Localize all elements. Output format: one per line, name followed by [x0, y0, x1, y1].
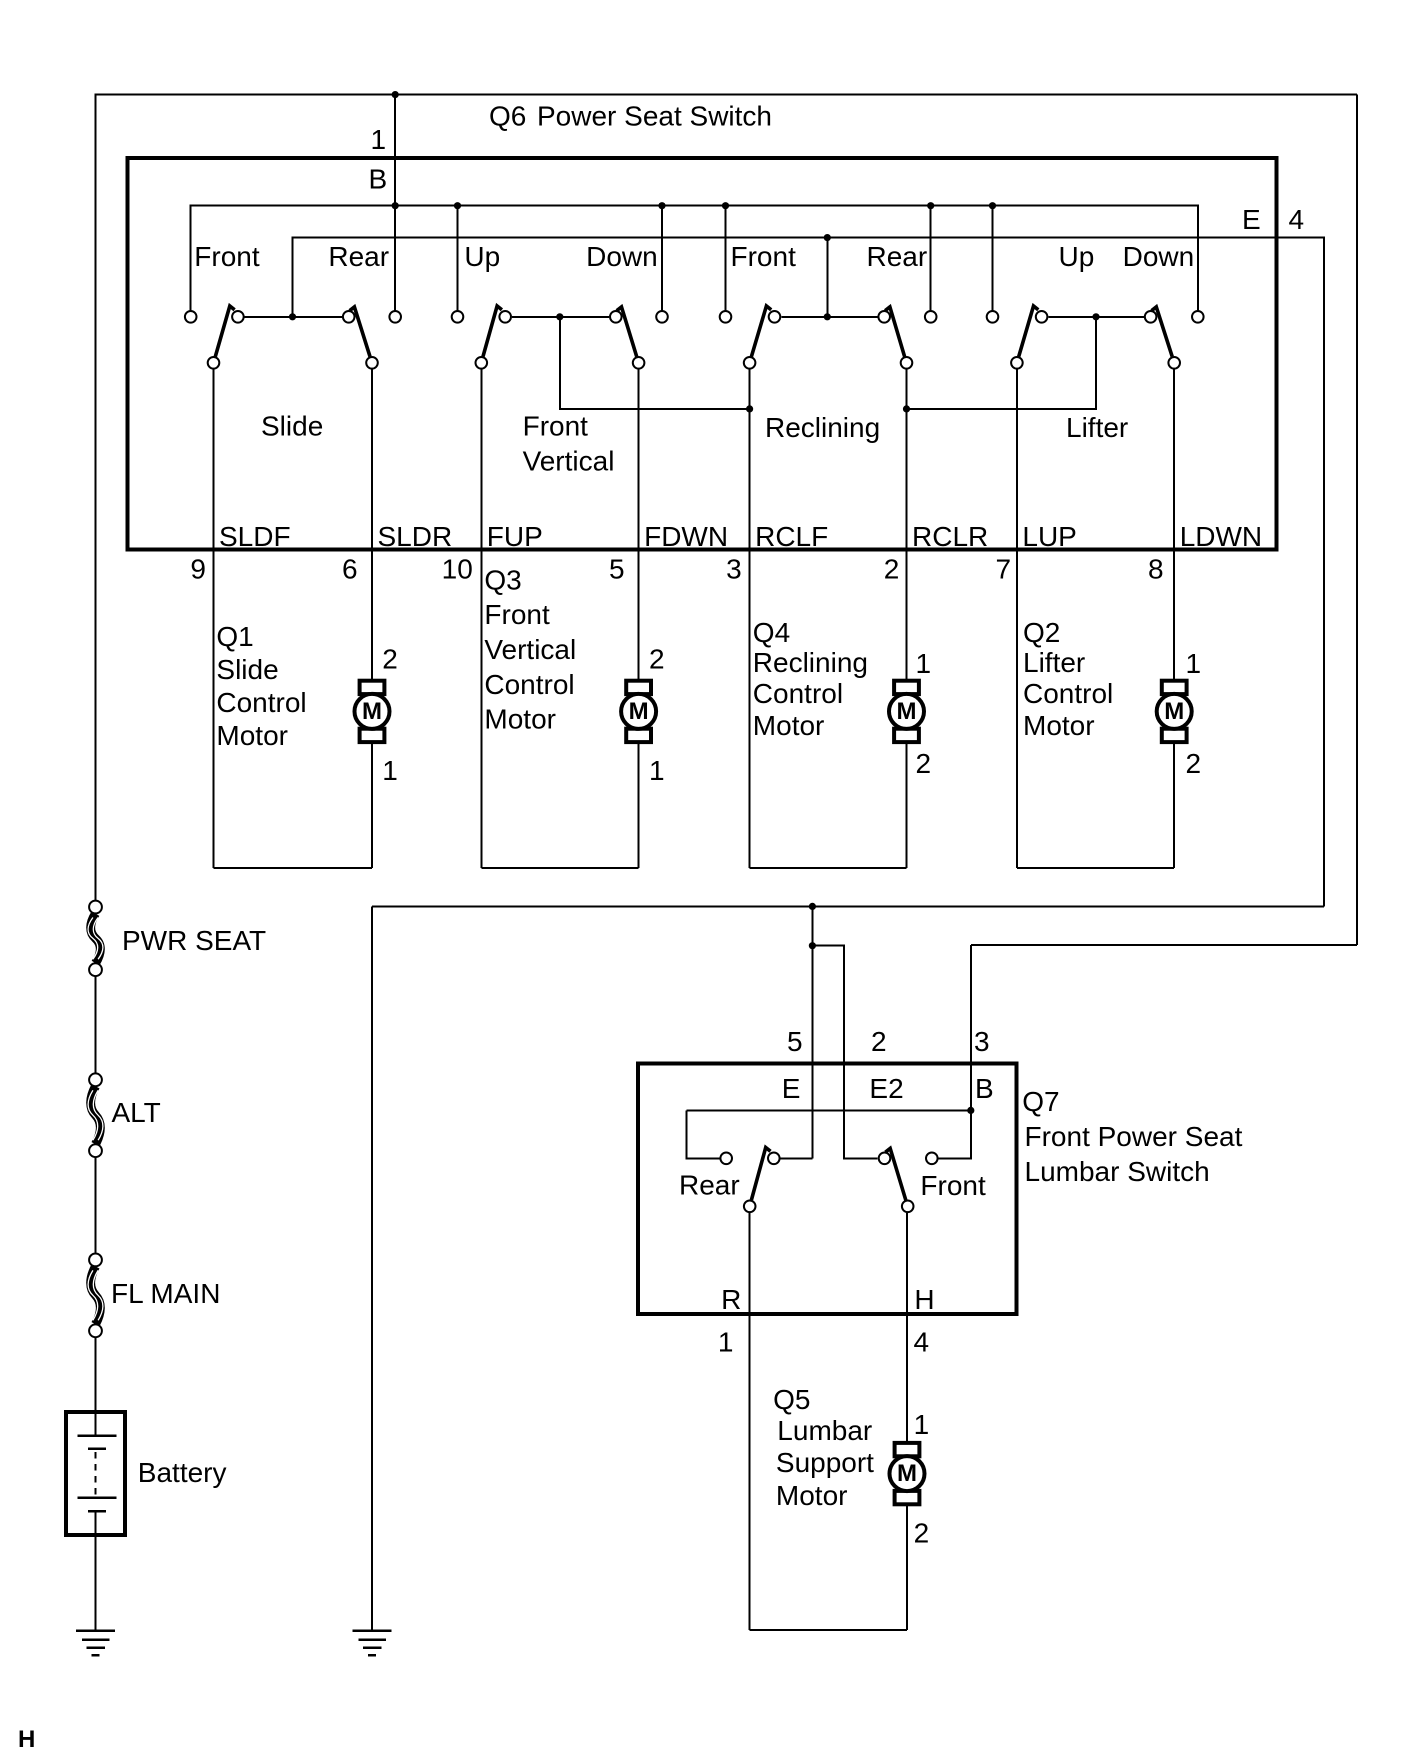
svg-text:5: 5: [787, 1026, 803, 1057]
label Q4 Reclining Control Motor: [753, 617, 868, 741]
label H (page index): [18, 1726, 35, 1753]
motor Q2 lifter control motor symbol: [1157, 681, 1192, 742]
label Front Power Seat: [1025, 1121, 1243, 1152]
svg-text:R: R: [721, 1284, 741, 1315]
svg-text:Up: Up: [1059, 241, 1095, 272]
terminal front vertical pivot R: [633, 357, 645, 369]
switch arm (lifter rear/down side): [1152, 307, 1173, 357]
svg-text:H: H: [914, 1284, 934, 1315]
svg-text:Front: Front: [731, 241, 797, 272]
label Down (front vertical): [586, 241, 658, 272]
svg-text:M: M: [362, 698, 382, 725]
wire lumbar B to Front terminal: [939, 1110, 971, 1158]
terminal front vertical pivot L: [476, 357, 488, 369]
svg-text:2: 2: [884, 554, 900, 585]
junction bus B at up4: [989, 202, 996, 209]
wire FDWN pin 5 drop to motor: [638, 370, 640, 682]
label Q5 Lumbar Support Motor: [773, 1384, 874, 1511]
wire Q4 motor to loop bottom: [906, 738, 908, 868]
svg-text:3: 3: [726, 554, 742, 585]
terminal slide pivot R: [366, 357, 378, 369]
wire B drop to Q6 pin 1: [394, 95, 396, 311]
motor Q5 lumbar support motor symbol: [890, 1443, 925, 1504]
wire Q2 motor to loop bottom: [1173, 738, 1175, 868]
terminal lifter pivot R: [1168, 357, 1180, 369]
pin 1 label (Q3 motor): [649, 755, 665, 786]
label Down (lifter): [1123, 241, 1195, 272]
wire LUP pin 7 drop: [1016, 370, 1018, 868]
pin label LUP: [1022, 521, 1076, 552]
switch arm (reclining front/up side): [751, 306, 771, 357]
pin 1 label (Q1 motor): [382, 755, 398, 786]
pin 1 label (Q2 motor): [1186, 648, 1202, 679]
terminal reclining feed R: [925, 311, 937, 323]
svg-text:E: E: [782, 1073, 801, 1104]
pin E label: [1242, 204, 1261, 235]
svg-text:Power Seat Switch: Power Seat Switch: [537, 101, 772, 132]
svg-text:7: 7: [996, 554, 1012, 585]
pin label LDWN: [1180, 521, 1262, 552]
junction bus E at reclining: [824, 234, 831, 241]
svg-text:Front Power Seat: Front Power Seat: [1025, 1121, 1243, 1152]
svg-text:Reclining: Reclining: [753, 647, 868, 678]
label Front (reclining): [731, 241, 797, 272]
battery plate short top: [88, 1448, 106, 1451]
junction bus B at up2: [454, 202, 461, 209]
pin B label: [369, 164, 388, 195]
label Q1 Slide Control Motor: [216, 621, 306, 751]
junction bus B at front3: [722, 202, 729, 209]
wire bus E (exits Q6 right side, down to E net): [293, 238, 1325, 907]
pin 2 label (Q3 motor): [649, 644, 665, 675]
wire Q4 motor loop bottom: [750, 867, 907, 869]
wire top horizontal (battery B net): [96, 94, 1358, 96]
wire RCLR pin 2 drop to motor: [906, 370, 908, 682]
wire left rail segment (ALT to FL MAIN): [95, 1158, 97, 1253]
wire contact bar (lifter): [1048, 316, 1143, 318]
label Lumbar Switch: [1025, 1156, 1210, 1187]
label Rear (lumbar): [679, 1170, 740, 1201]
junction link at RCLF wire: [746, 405, 753, 412]
svg-text:Vertical: Vertical: [484, 634, 576, 665]
svg-text:8: 8: [1148, 554, 1164, 585]
junction front vertical common node: [556, 313, 563, 320]
svg-text:Up: Up: [464, 241, 500, 272]
pin label FUP: [487, 521, 543, 552]
junction bus B at rear3: [927, 202, 934, 209]
svg-text:FL MAIN: FL MAIN: [111, 1278, 220, 1309]
svg-text:PWR SEAT: PWR SEAT: [122, 925, 266, 956]
svg-text:Slide: Slide: [261, 411, 323, 442]
label Lifter: [1066, 412, 1128, 443]
junction E2 branch: [809, 942, 816, 949]
wire lumbar B bar: [687, 1109, 971, 1111]
svg-text:Down: Down: [586, 241, 658, 272]
terminal lumbar pivot R: [744, 1201, 756, 1213]
wire lifter common to RCLR link: [907, 317, 1097, 409]
terminal slide pivot L: [208, 357, 220, 369]
svg-text:H: H: [18, 1726, 35, 1753]
terminal slide contact L: [232, 311, 244, 323]
switch arm (slide front/up side): [215, 306, 234, 357]
wire E2 branch to lumbar switch pin 2: [812, 946, 877, 1159]
wire Q1 motor to loop bottom: [371, 738, 373, 868]
terminal front vertical feed L: [452, 311, 464, 323]
wire far right vertical (B net): [1356, 95, 1358, 945]
svg-text:LDWN: LDWN: [1180, 521, 1262, 552]
terminal lifter contact L: [1036, 311, 1048, 323]
svg-text:Q5: Q5: [773, 1384, 810, 1415]
wire Q3 motor loop bottom: [481, 867, 638, 869]
terminal lifter contact R: [1145, 311, 1157, 323]
pin 4 label: [1289, 204, 1305, 235]
svg-text:Reclining: Reclining: [765, 412, 880, 443]
wire E horizontal (Q6 E to ground rail): [372, 905, 1324, 907]
junction bus B at B: [392, 202, 399, 209]
svg-text:Lumbar Switch: Lumbar Switch: [1025, 1156, 1210, 1187]
wire B horizontal to lumbar switch: [971, 944, 1357, 946]
wire E drop to reclining common: [826, 238, 828, 317]
svg-text:Down: Down: [1123, 241, 1195, 272]
terminal lifter feed L: [987, 311, 999, 323]
pin label RCLF: [755, 521, 828, 552]
junction bus B at down2: [658, 202, 665, 209]
pin 2 label (Q5 motor): [914, 1517, 930, 1548]
svg-text:Q2: Q2: [1023, 617, 1060, 648]
pin number 5 (FDWN): [609, 554, 625, 585]
pin 2 label (Q4 motor): [916, 748, 932, 779]
terminal reclining pivot L: [744, 357, 756, 369]
pin label SLDF: [219, 521, 291, 552]
svg-text:LUP: LUP: [1022, 521, 1076, 552]
pin 1 label (Q4 motor): [916, 648, 932, 679]
pin number 8 (LDWN): [1148, 554, 1164, 585]
terminal lumbar E2 contact: [879, 1153, 891, 1165]
label Up (front vertical): [464, 241, 500, 272]
svg-text:2: 2: [916, 748, 932, 779]
svg-text:SLDF: SLDF: [219, 521, 291, 552]
label ALT: [112, 1097, 161, 1128]
label Reclining: [765, 412, 880, 443]
pin E2 label (lumbar): [869, 1073, 903, 1104]
label Q7: [1022, 1086, 1059, 1117]
svg-text:Lifter: Lifter: [1066, 412, 1128, 443]
wire contact bar (reclining): [781, 316, 877, 318]
wire left rail segment (battery to PWR SEAT fuse): [95, 94, 97, 900]
label Battery: [138, 1457, 227, 1488]
terminal lumbar Front: [926, 1153, 938, 1165]
svg-text:Control: Control: [1023, 678, 1113, 709]
terminal lumbar E contact: [768, 1153, 780, 1165]
svg-text:RCLR: RCLR: [912, 521, 988, 552]
fuse ALT: [88, 1073, 103, 1157]
label Power Seat Switch: [537, 101, 772, 132]
battery plate long top: [77, 1435, 116, 1438]
terminal lifter feed R: [1192, 311, 1204, 323]
pin number 7 (LUP): [996, 554, 1012, 585]
svg-text:1: 1: [382, 755, 398, 786]
wire battery to ground: [95, 1511, 97, 1631]
svg-text:2: 2: [871, 1026, 887, 1057]
junction link at RCLR wire: [903, 405, 910, 412]
svg-text:1: 1: [1186, 648, 1202, 679]
svg-text:M: M: [897, 698, 917, 725]
svg-text:Motor: Motor: [1023, 710, 1095, 741]
wire feed drop to Up (front vertical) terminal: [457, 206, 459, 311]
wire Q5 motor to loop bottom: [906, 1502, 908, 1630]
wire R pin 1 drop: [749, 1213, 751, 1630]
label Slide: [261, 411, 323, 442]
junction slide common node: [289, 313, 296, 320]
svg-text:Motor: Motor: [216, 720, 288, 751]
wire Q3 motor to loop bottom: [638, 738, 640, 868]
terminal reclining contact L: [769, 311, 781, 323]
svg-text:SLDR: SLDR: [378, 521, 453, 552]
wire feed drop to Up (lifter) terminal: [992, 206, 994, 311]
wire left rail segment (FL MAIN to battery): [95, 1338, 97, 1436]
svg-text:2: 2: [914, 1517, 930, 1548]
switch arm (lumbar rear): [751, 1148, 770, 1201]
svg-text:M: M: [1164, 698, 1184, 725]
junction top B node: [392, 91, 399, 98]
pin label RCLR: [912, 521, 988, 552]
wire E to lumbar Rear-side contact: [781, 1157, 813, 1159]
wire Q1 motor loop bottom: [214, 867, 373, 869]
svg-text:ALT: ALT: [112, 1097, 161, 1128]
terminal front vertical feed R: [656, 311, 668, 323]
junction lifter common node: [1092, 313, 1099, 320]
junction B inside lumbar switch: [967, 1107, 974, 1114]
wire bus B inside Q6: [191, 206, 1198, 311]
svg-text:Lifter: Lifter: [1023, 647, 1085, 678]
pin number 3 (RCLF): [726, 554, 742, 585]
wire FUP pin 10 drop: [480, 370, 482, 868]
terminal reclining contact R: [878, 311, 890, 323]
terminal slide contact R: [343, 311, 355, 323]
svg-text:2: 2: [649, 644, 665, 675]
pin number 2 (RCLR): [884, 554, 900, 585]
svg-text:Front: Front: [484, 599, 550, 630]
motor Q1 slide control motor symbol: [355, 681, 390, 742]
svg-text:2: 2: [382, 644, 398, 675]
terminal slide feed R: [389, 311, 401, 323]
svg-text:Front: Front: [523, 411, 589, 442]
battery plate long bottom: [77, 1496, 116, 1499]
wire SLDF pin 9 drop: [213, 370, 215, 868]
switch box Q7 Front Power Seat Lumbar Switch: [638, 1063, 1016, 1314]
svg-text:Slide: Slide: [216, 654, 278, 685]
wire feed drop to Down (front vertical) terminal: [661, 206, 663, 311]
switch box Q6 Power Seat Switch: [128, 158, 1277, 550]
terminal lifter pivot L: [1011, 357, 1023, 369]
svg-text:Q3: Q3: [484, 565, 521, 596]
label Front Vertical: [523, 411, 615, 477]
wire LDWN pin 8 drop to motor: [1173, 370, 1175, 682]
svg-text:Q6: Q6: [489, 101, 526, 132]
svg-text:E2: E2: [869, 1073, 903, 1104]
wire feed drop to Front (reclining) terminal: [725, 206, 727, 311]
pin B label (lumbar): [975, 1073, 994, 1104]
svg-text:Vertical: Vertical: [523, 445, 615, 476]
svg-text:Rear: Rear: [867, 241, 928, 272]
wire feed drop to Rear (reclining) terminal: [930, 206, 932, 311]
svg-text:B: B: [975, 1073, 994, 1104]
svg-text:Q7: Q7: [1022, 1086, 1059, 1117]
ground (battery): [76, 1631, 115, 1655]
wire ground rail (E net): [371, 906, 373, 1630]
svg-text:Control: Control: [484, 669, 574, 700]
svg-text:Battery: Battery: [138, 1457, 227, 1488]
pin number 9 (SLDF): [190, 554, 206, 585]
switch arm (front vertical rear/down side): [617, 307, 637, 357]
label Rear (reclining): [867, 241, 928, 272]
wire lumbar B to Rear terminal: [687, 1110, 720, 1158]
pin 1 label (Q5 motor): [914, 1409, 930, 1440]
svg-text:Motor: Motor: [484, 704, 556, 735]
svg-text:Rear: Rear: [328, 241, 389, 272]
svg-text:2: 2: [1186, 748, 1202, 779]
wire contact bar (slide): [245, 316, 342, 318]
pin 3 label (lumbar): [974, 1026, 990, 1057]
svg-text:M: M: [897, 1460, 917, 1487]
svg-text:Q1: Q1: [216, 621, 253, 652]
junction reclining common node: [824, 313, 831, 320]
svg-text:FDWN: FDWN: [644, 521, 728, 552]
switch arm (lumbar front): [885, 1148, 905, 1200]
svg-text:Control: Control: [216, 687, 306, 718]
svg-text:1: 1: [718, 1327, 734, 1358]
svg-text:10: 10: [442, 554, 473, 585]
pin E label (lumbar): [782, 1073, 801, 1104]
svg-text:1: 1: [914, 1409, 930, 1440]
wire H pin 4 drop to motor: [906, 1213, 908, 1444]
label Q2 Lifter Control Motor: [1023, 617, 1113, 741]
pin 2 label (Q1 motor): [382, 644, 398, 675]
svg-text:Q4: Q4: [753, 617, 790, 648]
switch arm (front vertical front/up side): [483, 306, 502, 357]
svg-text:Motor: Motor: [753, 710, 825, 741]
svg-text:Front: Front: [920, 1170, 986, 1201]
battery dashed cell link: [95, 1452, 97, 1495]
switch arm (slide rear/down side): [350, 307, 370, 357]
pin 1 label (lumbar R): [718, 1327, 734, 1358]
pin 4 label (lumbar H): [914, 1327, 930, 1358]
svg-text:FUP: FUP: [487, 521, 543, 552]
wire left rail segment (PWR SEAT to ALT): [95, 977, 97, 1073]
terminal front vertical contact R: [610, 311, 622, 323]
pin 5 label (lumbar): [787, 1026, 803, 1057]
svg-text:E: E: [1242, 204, 1261, 235]
label Q3 Front Vertical Control Motor: [484, 565, 576, 735]
svg-text:Front: Front: [194, 241, 260, 272]
terminal front vertical contact L: [499, 311, 511, 323]
pin number 10 (FUP): [442, 554, 473, 585]
ground (seat switch E net): [353, 1631, 392, 1655]
svg-text:Support: Support: [776, 1447, 874, 1478]
svg-text:M: M: [629, 698, 649, 725]
svg-text:9: 9: [190, 554, 206, 585]
terminal slide feed L: [185, 311, 197, 323]
wire Q2 motor loop bottom: [1017, 867, 1174, 869]
label PWR SEAT: [122, 925, 266, 956]
switch arm (lifter front/up side): [1019, 306, 1039, 357]
motor Q3 front vertical control motor symbol: [621, 681, 656, 742]
wire E drop to lumbar switch pin 5: [811, 906, 813, 1158]
svg-text:4: 4: [1289, 204, 1305, 235]
pin 1 label: [371, 124, 387, 155]
motor Q4 reclining control motor symbol: [889, 681, 924, 742]
pin label FDWN: [644, 521, 728, 552]
label Q6: [489, 101, 526, 132]
svg-text:1: 1: [371, 124, 387, 155]
pin H label: [914, 1284, 934, 1315]
svg-text:6: 6: [342, 554, 358, 585]
label Rear (slide): [328, 241, 389, 272]
pin R label: [721, 1284, 741, 1315]
svg-text:4: 4: [914, 1327, 930, 1358]
battery plate short bottom: [88, 1510, 106, 1513]
fuse FL MAIN: [88, 1254, 103, 1338]
label Front (slide): [194, 241, 260, 272]
svg-text:RCLF: RCLF: [755, 521, 828, 552]
pin 2 label (lumbar): [871, 1026, 887, 1057]
junction E at lumbar drop: [809, 903, 816, 910]
pin number 6 (SLDR): [342, 554, 358, 585]
terminal reclining pivot R: [901, 357, 913, 369]
svg-text:Lumbar: Lumbar: [777, 1415, 872, 1446]
terminal lumbar pivot H: [902, 1201, 914, 1213]
label Front (lumbar): [920, 1170, 986, 1201]
fuse PWR SEAT: [88, 901, 103, 977]
svg-text:Motor: Motor: [776, 1480, 848, 1511]
wire front-vertical common to RCLF link: [560, 317, 750, 409]
label Up (lifter): [1059, 241, 1095, 272]
svg-text:Control: Control: [753, 678, 843, 709]
svg-text:1: 1: [916, 648, 932, 679]
wire RCLF pin 3 drop: [749, 370, 751, 868]
svg-text:5: 5: [609, 554, 625, 585]
svg-text:B: B: [369, 164, 388, 195]
pin label SLDR: [378, 521, 453, 552]
label FL MAIN: [111, 1278, 220, 1309]
wire contact bar (front vertical): [512, 316, 609, 318]
wire B drop into lumbar switch pin 3: [970, 945, 972, 1111]
wire Q5 motor loop bottom: [750, 1629, 907, 1631]
svg-text:Rear: Rear: [679, 1170, 740, 1201]
battery box: [66, 1412, 125, 1535]
svg-text:3: 3: [974, 1026, 990, 1057]
terminal reclining feed L: [720, 311, 732, 323]
switch arm (reclining rear/down side): [885, 307, 904, 357]
terminal lumbar Rear: [720, 1153, 732, 1165]
pin 2 label (Q2 motor): [1186, 748, 1202, 779]
svg-text:1: 1: [649, 755, 665, 786]
wire SLDR pin 6 drop to motor: [371, 370, 373, 682]
